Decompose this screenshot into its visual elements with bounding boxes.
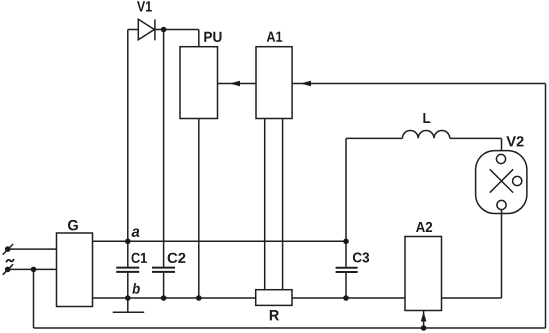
node: junction dot on bottom loop below A2 bbox=[421, 325, 427, 331]
label A2 bbox=[416, 222, 432, 232]
terminal: top AC input with slash bbox=[3, 244, 13, 255]
lamp V2 cross stroke 1 bbox=[490, 169, 513, 192]
box PU bbox=[180, 47, 218, 119]
resistor R bbox=[256, 290, 292, 306]
label PU bbox=[204, 32, 221, 42]
wire: top horizontal from left vertical to diode anode bbox=[128, 29, 139, 31]
wire: horizontal to inductor L bbox=[346, 137, 402, 139]
wire: A1 to PU arrow line bbox=[218, 83, 257, 85]
label node a bbox=[132, 229, 140, 238]
label G bbox=[68, 220, 78, 231]
node a dot bbox=[125, 239, 131, 245]
wire: left vertical of outer loop from input junction bbox=[33, 269, 35, 328]
node: junction dot C3 bottom bbox=[343, 295, 349, 301]
node: junction dot C2 bottom bbox=[161, 295, 167, 301]
wire: node-b line from G to R bbox=[93, 297, 256, 299]
label node b bbox=[132, 283, 139, 294]
label C3 bbox=[353, 253, 369, 263]
wire: PU top lead vertical bbox=[198, 30, 200, 47]
wire: V2 bottom to A2 right side bbox=[442, 297, 502, 299]
wire: PU bottom lead down to b-line bbox=[198, 119, 200, 299]
label V2 bbox=[506, 136, 523, 146]
box G bbox=[57, 233, 93, 307]
lamp V2 top electrode circle bbox=[496, 154, 505, 163]
wire: C1 bottom lead bbox=[127, 273, 129, 298]
wire: node-a line from G to C3 branch bbox=[93, 240, 347, 242]
label L bbox=[423, 113, 430, 123]
diode V1 bbox=[138, 19, 155, 40]
wire: vertical from top line down to node a bbox=[127, 30, 129, 242]
wire: A1 bottom right lead down to R bbox=[282, 119, 284, 290]
wire: A2 bottom arrow lead bbox=[423, 311, 425, 329]
node: junction dot a-line with C3 branch bbox=[343, 239, 349, 245]
label A1 bbox=[267, 32, 283, 42]
wire: C1 top lead bbox=[127, 241, 129, 266]
node b dot bbox=[125, 295, 131, 301]
terminal: bottom AC input with slash bbox=[3, 264, 13, 275]
node: junction dot PU lead on b-line bbox=[196, 295, 202, 301]
lamp V2 right electrode circle bbox=[513, 176, 522, 185]
inductor L bbox=[402, 131, 449, 139]
wire: bottom input to G bbox=[8, 268, 57, 270]
wire: bottom horizontal of outer loop bbox=[34, 327, 546, 329]
label R bbox=[270, 310, 279, 320]
wire: A1 bottom left lead down to R bbox=[264, 119, 266, 290]
wire: vertical from L branch down through a-junction to C3 bbox=[345, 138, 347, 267]
wire: C3 bottom lead bbox=[345, 273, 347, 298]
wire: diode cathode to PU top corner bbox=[155, 29, 199, 31]
lamp V2 envelope bbox=[476, 151, 527, 214]
label V1 bbox=[137, 1, 152, 11]
label C1 bbox=[132, 253, 147, 263]
wire: V2 bottom lead down bbox=[501, 210, 503, 298]
lamp V2 cross stroke 2 bbox=[490, 169, 513, 192]
arrowhead into PU bbox=[230, 81, 241, 87]
label AC tilde bbox=[6, 259, 14, 262]
ground symbol at node b bbox=[113, 298, 145, 312]
lamp V2 bottom electrode circle bbox=[497, 200, 506, 209]
wire: V2 top lead bbox=[501, 138, 503, 155]
label C2 bbox=[168, 253, 186, 263]
wire: right vertical of outer loop bbox=[545, 84, 547, 329]
wire: top input to G bbox=[8, 248, 57, 250]
wire: inductor to V2 top corner bbox=[450, 137, 502, 139]
box A1 bbox=[256, 47, 292, 119]
wire: node-b line from R to A2 bbox=[292, 297, 405, 299]
capacitor C3 bbox=[336, 268, 358, 272]
capacitor C1 bbox=[116, 268, 139, 272]
wire: feedback line from right vertical into A1 bbox=[292, 83, 545, 85]
capacitor C2 bbox=[152, 268, 175, 272]
node: junction dot at diode cathode output bbox=[161, 27, 167, 33]
wire: C2 bottom lead bbox=[163, 273, 165, 298]
box A2 bbox=[405, 237, 442, 311]
wire: vertical from diode junction down to C2 top bbox=[163, 30, 165, 268]
arrowhead into A1 bbox=[301, 81, 312, 87]
node: junction dot on bottom input wire bbox=[31, 267, 37, 273]
arrowhead into A2 bottom bbox=[421, 312, 427, 322]
